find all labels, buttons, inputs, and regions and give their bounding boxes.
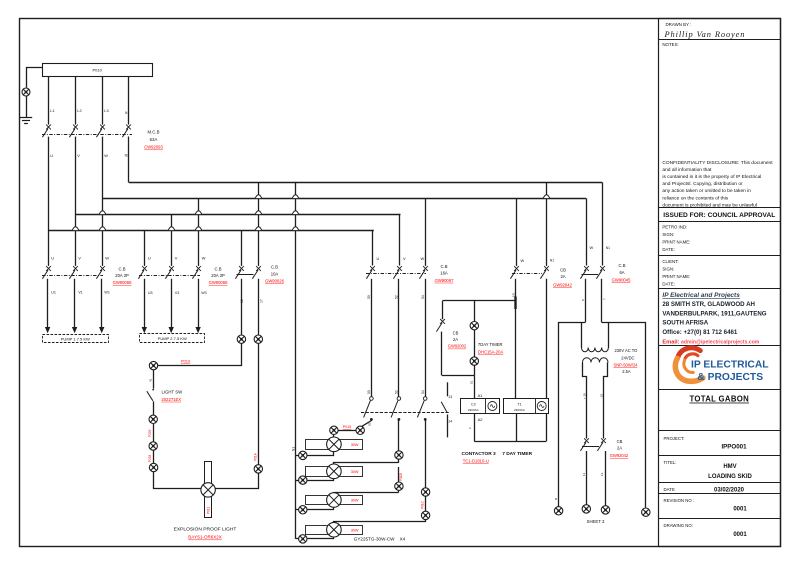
- wire rail stub 2: [296, 480, 299, 482]
- wire CB10A out right: [258, 279, 260, 335]
- terminal pole3 a: [421, 488, 429, 496]
- wire A2 rail: [474, 441, 546, 443]
- svg-text:IPPO001: IPPO001: [721, 443, 747, 450]
- svg-text:52: 52: [395, 390, 399, 394]
- C.B 20A pump1 pole 2: [69, 266, 78, 279]
- svg-text:P01B: P01B: [399, 473, 403, 481]
- CB 2A bottom pole 1: [580, 438, 589, 451]
- contactor aux contact 13-14: [441, 382, 447, 437]
- svg-text:V3: V3: [175, 291, 180, 295]
- wire branch to CB92002: [442, 301, 444, 319]
- svg-text:CLIENT:: CLIENT:: [662, 259, 678, 264]
- wire CB16A out 1: [371, 279, 373, 397]
- svg-text:V: V: [175, 256, 178, 261]
- svg-text:230VAC: 230VAC: [514, 408, 526, 412]
- svg-text:IP ELECTRICAL: IP ELECTRICAL: [691, 359, 769, 370]
- C.B 16A pole 3: [419, 266, 428, 279]
- svg-text:and all information that: and all information that: [662, 167, 712, 173]
- svg-text:50: 50: [367, 390, 371, 394]
- wire CB16A out 2: [398, 279, 400, 397]
- svg-text:ISSUED FOR: COUNCIL APPROVAL: ISSUED FOR: COUNCIL APPROVAL: [663, 212, 775, 219]
- svg-text:6A: 6A: [619, 270, 624, 275]
- svg-text:reliance on the contents of th: reliance on the contents of this: [662, 195, 728, 201]
- svg-text:A2: A2: [478, 417, 484, 422]
- crossing hops on buses: [72, 211, 106, 231]
- M.C.B pole 4: [122, 125, 130, 138]
- wire control branch: [443, 300, 516, 302]
- svg-text:63A: 63A: [150, 137, 158, 142]
- svg-text:GW92042: GW92042: [553, 282, 573, 287]
- svg-text:GW90026: GW90026: [265, 279, 285, 284]
- C.B 6A linkage: [582, 274, 599, 276]
- svg-text:+ 10: + 10: [582, 393, 586, 399]
- wire pole2 down: [398, 419, 400, 463]
- svg-text:PUMP 2 7.5 KW: PUMP 2 7.5 KW: [158, 336, 187, 341]
- lamp fixture 2 30W: [306, 467, 363, 477]
- wire pump2 U drop: [144, 231, 146, 266]
- hops CB10A N1 drop: [255, 195, 262, 231]
- svg-text:11: 11: [582, 473, 586, 476]
- svg-text:and Projectsl. Copying, distri: and Projectsl. Copying, distribution or: [662, 181, 743, 187]
- svg-text:SIGN:: SIGN:: [662, 232, 674, 237]
- svg-text:54: 54: [421, 295, 425, 299]
- wire tx secondary right: [604, 363, 608, 439]
- hop CB2A N1: [543, 195, 550, 199]
- wire CB6A out N1: [601, 279, 603, 322]
- terminal light chain 3: [149, 463, 157, 471]
- explosion proof light lamp: [201, 483, 215, 497]
- svg-text:PRINT NAME:: PRINT NAME:: [662, 239, 690, 244]
- C.B 20A pump2 pole 1: [138, 266, 147, 279]
- terminal light chain 2: [149, 442, 157, 450]
- wire CB92002 out: [441, 332, 443, 376]
- C.B 6A pole 1: [580, 266, 589, 279]
- wire switch to term1: [153, 401, 155, 415]
- svg-text:7DAY TIMER: 7DAY TIMER: [478, 342, 503, 347]
- transformer secondary winding: [583, 358, 609, 363]
- svg-text:03/02/2020: 03/02/2020: [714, 488, 745, 494]
- junction blob control: [514, 297, 516, 310]
- title block outline: [659, 19, 781, 547]
- wire U phase down: [48, 137, 50, 266]
- svg-text:CB: CB: [617, 439, 623, 444]
- svg-text:41: 41: [149, 378, 153, 382]
- svg-text:W1: W1: [104, 290, 110, 294]
- wire pole3 down b: [425, 496, 427, 511]
- CB 2A top pole 2: [540, 266, 549, 279]
- terminal pole2 b: [395, 482, 403, 490]
- svg-text:CW92093: CW92093: [144, 144, 163, 149]
- svg-text:W: W: [105, 256, 109, 261]
- svg-text:DRAWING NO:: DRAWING NO:: [664, 523, 693, 528]
- confidentiality disclosure text: [662, 160, 773, 208]
- terminal lamp rail 1: [299, 451, 307, 459]
- wire timer drop: [474, 301, 476, 322]
- wire tx primary feed right: [608, 322, 610, 348]
- svg-text:Email: admin@ipelectricalproje: Email: admin@ipelectricalprojects.com: [662, 340, 759, 346]
- svg-text:GW92042: GW92042: [610, 453, 629, 458]
- contactor linkage: [361, 412, 449, 414]
- wire rail stub 1: [296, 455, 299, 457]
- wire tx top left: [559, 323, 586, 507]
- wire lamp 4 return: [308, 538, 334, 539]
- transformer primary winding: [582, 348, 609, 352]
- svg-text:17: 17: [260, 299, 264, 303]
- svg-text:P010: P010: [181, 359, 191, 364]
- wire CB16A U drop: [373, 231, 374, 266]
- svg-text:CONTACTOR 3: CONTACTOR 3: [462, 451, 497, 457]
- wire pole2 down b: [398, 467, 400, 493]
- terminal pole3 b: [421, 511, 429, 519]
- svg-text:C.B: C.B: [441, 264, 448, 269]
- lamp fixture 3 30W: [306, 496, 363, 505]
- svg-text:DHC15A-20A: DHC15A-20A: [478, 349, 504, 354]
- svg-text:DATE:: DATE:: [662, 281, 674, 286]
- svg-text:16A: 16A: [440, 271, 448, 276]
- svg-text:U: U: [50, 153, 53, 158]
- wire lamp3 feed: [334, 492, 399, 494]
- svg-text:GW90068: GW90068: [113, 280, 133, 285]
- petro ind rows: [662, 224, 690, 251]
- wire pole1 to lamp junctions: [361, 421, 372, 428]
- C.B 6A pole 2: [596, 266, 605, 279]
- contactor main contact 1: [364, 397, 374, 421]
- wire pump2 feed 2: [171, 279, 173, 327]
- hops pump2 drops: [168, 211, 202, 231]
- svg-text:VANDERBULPARK, 1911,GAUTENG: VANDERBULPARK, 1911,GAUTENG: [662, 310, 766, 317]
- svg-text:C.B: C.B: [215, 266, 222, 271]
- terminal light feed left: [237, 335, 245, 343]
- svg-text:LOADING SKID: LOADING SKID: [708, 474, 752, 480]
- svg-text:& PROJECTS: & PROJECTS: [697, 372, 763, 383]
- busbar P010 box: [43, 64, 153, 77]
- svg-text:NOTES:: NOTES:: [662, 42, 678, 47]
- svg-text:U3: U3: [148, 291, 153, 295]
- wire lamp N1 rail drop: [295, 183, 297, 539]
- terminal lamp rail 2: [299, 476, 307, 484]
- C.B 20A pump1 pole 1: [42, 266, 51, 279]
- wire CB bottom out left: [586, 451, 588, 505]
- svg-text:N1: N1: [292, 447, 296, 451]
- svg-text:V1: V1: [78, 290, 83, 294]
- wire P010 phase 3 drop: [102, 76, 104, 125]
- svg-text:document is prohibited and may: document is prohibited and may be unlawf…: [662, 202, 757, 208]
- arrow pump1 2: [72, 327, 77, 333]
- terminal sheet3 a: [554, 507, 562, 515]
- svg-text:SNP-50W/24: SNP-50W/24: [614, 362, 639, 367]
- svg-text:230V AC TO: 230V AC TO: [615, 348, 638, 353]
- svg-text:P203: P203: [148, 429, 152, 437]
- wire to light switch: [153, 370, 155, 389]
- svg-text:EXPLOSION PROOF LIGHT: EXPLOSION PROOF LIGHT: [174, 527, 237, 533]
- pump 2 box: [140, 334, 205, 343]
- svg-text:any action taken or omitted to: any action taken or omitted to be taken …: [662, 188, 751, 194]
- M.C.B pole 3: [96, 125, 105, 138]
- svg-text:13: 13: [448, 395, 452, 399]
- terminal pole2 a: [395, 451, 403, 459]
- wire lamp1 feed: [333, 435, 335, 438]
- svg-text:SIGN:: SIGN:: [662, 266, 674, 271]
- arrow pump2 3: [195, 327, 200, 333]
- terminal sheet3 c: [601, 506, 609, 514]
- svg-text:0001: 0001: [733, 532, 747, 538]
- svg-text:2.5A: 2.5A: [622, 369, 631, 374]
- svg-text:V: V: [403, 256, 406, 261]
- bus W: [102, 198, 586, 200]
- wire to ground: [26, 96, 28, 117]
- svg-text:TITEL:: TITEL:: [664, 460, 677, 465]
- svg-text:CONFIDENTIALITY DISCLOSURE: Th: CONFIDENTIALITY DISCLOSURE: This documen…: [662, 160, 773, 166]
- terminal sheet3 b: [582, 505, 590, 513]
- wire rail stub 4: [296, 538, 299, 540]
- svg-text:DATE:: DATE:: [662, 247, 674, 252]
- C.B 20A pump2 pole 3: [192, 266, 201, 279]
- wire pump1 feed 2: [74, 279, 76, 327]
- title block dividers: [659, 40, 781, 519]
- earth terminal: [22, 88, 30, 96]
- client rows: [662, 259, 690, 286]
- wire timer loop bottom: [442, 375, 474, 377]
- wire pump1 feed 3: [101, 279, 103, 327]
- C.B 10A pole 1: [235, 266, 244, 279]
- wire V phase down: [75, 137, 77, 266]
- svg-text:SHEET 3: SHEET 3: [587, 519, 605, 524]
- svg-text:10A: 10A: [271, 271, 279, 276]
- wire pole3 down: [425, 419, 427, 487]
- svg-text:Phillip Van Rooyen: Phillip Van Rooyen: [664, 30, 746, 39]
- bus N1: [129, 182, 603, 184]
- svg-text:A1: A1: [478, 393, 484, 398]
- svg-text:GW90045: GW90045: [612, 277, 632, 282]
- svg-text:30W: 30W: [351, 443, 359, 447]
- svg-text:2A: 2A: [617, 446, 622, 451]
- terminal lamp feed b: [330, 426, 338, 434]
- svg-text:HMV: HMV: [723, 464, 736, 470]
- wire to A1: [474, 375, 476, 398]
- wire term3 to lamp: [154, 472, 202, 489]
- svg-text:U1: U1: [51, 290, 56, 294]
- bus U: [48, 230, 374, 232]
- svg-text:C.B: C.B: [619, 263, 626, 268]
- svg-text:M.C.B: M.C.B: [148, 130, 160, 135]
- wire term1-term2: [153, 424, 155, 442]
- wire pump2 V drop: [171, 215, 173, 266]
- svg-text:GY225TG-30W-CW X4: GY225TG-30W-CW X4: [354, 536, 406, 541]
- wire CB16A out 3: [425, 279, 427, 397]
- svg-text:PRINT NAME:: PRINT NAME:: [662, 274, 690, 279]
- svg-text:W: W: [521, 258, 525, 263]
- svg-text:P010: P010: [93, 67, 103, 72]
- svg-text:30W: 30W: [351, 470, 359, 474]
- svg-text:T1: T1: [517, 402, 521, 406]
- wire CB16A V drop: [400, 215, 401, 266]
- wire lamp2 feed: [334, 463, 399, 465]
- svg-text:GW92002: GW92002: [448, 344, 467, 349]
- C.B 10A linkage: [237, 274, 254, 276]
- svg-text:30W: 30W: [351, 528, 359, 532]
- wire lamp to right chain: [216, 474, 259, 489]
- svg-text:LIGHT SW: LIGHT SW: [162, 389, 184, 394]
- svg-text:DRAWN BY :: DRAWN BY :: [666, 22, 692, 27]
- CB 2A bottom linkage: [582, 446, 599, 448]
- terminal lamp rail 3: [299, 506, 307, 514]
- contactor coil C3 box: [461, 399, 500, 414]
- svg-text:C3: C3: [471, 402, 476, 406]
- CB 2A top pole 1: [510, 266, 519, 279]
- terminal timer top: [470, 322, 478, 330]
- C.B pump2 linkage: [139, 275, 200, 277]
- terminal lamp feed a: [356, 426, 364, 434]
- svg-text:TC1-D1810-U: TC1-D1810-U: [463, 458, 489, 463]
- svg-text:PUMP 1 7.5 KW: PUMP 1 7.5 KW: [61, 336, 90, 341]
- ground: [20, 118, 32, 124]
- svg-text:2A: 2A: [560, 274, 565, 279]
- svg-text:P015: P015: [343, 425, 351, 429]
- wire T1 A2 down: [516, 413, 518, 441]
- terminal P010 junction: [149, 361, 157, 369]
- wire pump2 feed 1: [144, 279, 146, 327]
- wire lamp 1 return: [308, 452, 334, 456]
- C.B 16A pole 1: [366, 266, 375, 279]
- svg-text:CB: CB: [560, 267, 566, 272]
- svg-text:W: W: [590, 245, 594, 250]
- terminal sheet3 d: [642, 508, 650, 516]
- explosion proof light tube: [205, 462, 212, 518]
- arrow pump2 2: [169, 327, 174, 333]
- svg-text:U: U: [148, 256, 151, 261]
- hops lamp rail: [292, 195, 299, 231]
- wire CB10A U drop: [241, 231, 243, 266]
- svg-text:GW90067: GW90067: [435, 278, 455, 283]
- svg-text:CB: CB: [453, 331, 459, 336]
- svg-text:28 SMITH STR, GLADWOOD AH: 28 SMITH STR, GLADWOOD AH: [662, 301, 755, 308]
- svg-text:TOTAL GABON: TOTAL GABON: [689, 395, 749, 404]
- wire term2-term3: [153, 450, 155, 463]
- arrow pump2 1: [142, 327, 147, 333]
- C.B 16A pole 2: [393, 266, 402, 279]
- wire tx primary feed left: [581, 322, 583, 348]
- svg-text:L1: L1: [50, 108, 54, 113]
- wire CB bottom out right: [605, 451, 607, 506]
- wire CB6A out W: [585, 279, 587, 322]
- svg-text:51: 51: [470, 380, 474, 384]
- svg-text:B: B: [554, 498, 558, 500]
- wire P010 phase 2 drop: [75, 76, 77, 125]
- svg-text:PROJECT:: PROJECT:: [664, 436, 685, 441]
- wire lamp4 feed: [334, 520, 426, 523]
- svg-text:P011: P011: [206, 507, 210, 514]
- svg-text:W3: W3: [201, 291, 207, 295]
- wire tx secondary left: [583, 363, 587, 439]
- wire lamp 3 return: [308, 508, 334, 510]
- svg-text:U: U: [51, 256, 54, 261]
- timer coil T1 box: [504, 399, 549, 414]
- contactor main contact 2: [391, 397, 401, 421]
- svg-text:is contained in it is the prop: is contained in it is the property of IP…: [662, 174, 761, 180]
- terminal right chain: [254, 465, 262, 473]
- wire timer out: [474, 365, 476, 375]
- CB 2A top linkage: [512, 273, 542, 275]
- wire CB2A W drop: [516, 199, 518, 266]
- M.C.B pole 1: [42, 125, 51, 138]
- wire CB6A N1 drop: [602, 183, 604, 266]
- svg-text:P01A: P01A: [254, 452, 258, 461]
- arrow pump1 1: [45, 327, 50, 333]
- svg-text:- 10: - 10: [600, 393, 604, 399]
- svg-text:V: V: [78, 256, 81, 261]
- terminal light feed right: [254, 335, 262, 343]
- svg-text:GW90068: GW90068: [209, 280, 229, 285]
- wire pump1 feed 1: [47, 279, 49, 327]
- svg-text:BAYS1-OR6X2X: BAYS1-OR6X2X: [188, 535, 221, 540]
- svg-text:20A 3P: 20A 3P: [115, 273, 129, 278]
- svg-text:W: W: [104, 153, 108, 158]
- terminal timer bottom: [470, 357, 478, 365]
- svg-text:202271EX: 202271EX: [162, 397, 182, 402]
- svg-text:W: W: [421, 256, 425, 261]
- svg-text:P204: P204: [148, 454, 152, 462]
- wire P010 to earth: [27, 68, 43, 88]
- lamp fixture 4 30W: [306, 526, 363, 535]
- svg-text:IP Electrical and Projects: IP Electrical and Projects: [662, 292, 740, 299]
- svg-text:0001: 0001: [733, 507, 747, 513]
- wire CB6A W drop: [586, 199, 588, 266]
- svg-text:REVISION NO :: REVISION NO :: [664, 498, 695, 503]
- svg-text:W: W: [202, 256, 206, 261]
- svg-text:N1: N1: [606, 246, 610, 250]
- C.B 20A pump2 pole 2: [165, 266, 174, 279]
- pump 1 box: [43, 335, 109, 343]
- svg-text:L2: L2: [77, 108, 81, 113]
- wire CB10A N1 drop: [258, 183, 260, 266]
- C.B pump1 linkage: [42, 275, 103, 277]
- svg-text:L3: L3: [104, 108, 108, 113]
- wire right chain up: [258, 344, 260, 465]
- svg-text:C.B: C.B: [119, 266, 126, 271]
- bus V: [75, 214, 400, 216]
- svg-text:2A: 2A: [453, 337, 458, 342]
- wire N1 down to bus: [128, 137, 130, 183]
- wire lamp 2 return: [308, 479, 334, 481]
- wire tx top right: [602, 323, 646, 508]
- CB 2A bottom pole 2: [597, 438, 606, 451]
- contactor main contact 3: [417, 397, 427, 421]
- svg-text:230VAC: 230VAC: [468, 408, 480, 412]
- wire W phase down: [102, 137, 104, 266]
- wire CB10A out left: [241, 279, 243, 335]
- svg-text:N1: N1: [550, 259, 554, 263]
- wire P010 phase 4 drop: [128, 76, 130, 125]
- svg-text:24VDC: 24VDC: [621, 355, 634, 360]
- M.C.B pole 2: [69, 125, 78, 138]
- wire pump2 feed 3: [198, 279, 200, 327]
- svg-text:Office: +27(0) 81 712 6461: Office: +27(0) 81 712 6461: [662, 329, 738, 336]
- svg-text:54: 54: [421, 390, 425, 394]
- svg-text:C.B: C.B: [271, 264, 278, 269]
- wire CB16A W drop: [425, 199, 427, 266]
- svg-text:12: 12: [600, 472, 604, 476]
- C.B 10A pole 2: [252, 266, 261, 279]
- terminal light chain 1: [149, 415, 157, 423]
- logo swirl: [675, 348, 703, 382]
- wire N1 control down: [546, 279, 548, 442]
- svg-text:50: 50: [367, 295, 371, 299]
- svg-text:P01C: P01C: [420, 500, 424, 509]
- svg-text:14: 14: [448, 419, 452, 423]
- C.B 20A pump1 pole 3: [96, 266, 105, 279]
- svg-text:V: V: [77, 153, 80, 158]
- C.B 16A linkage: [366, 273, 426, 275]
